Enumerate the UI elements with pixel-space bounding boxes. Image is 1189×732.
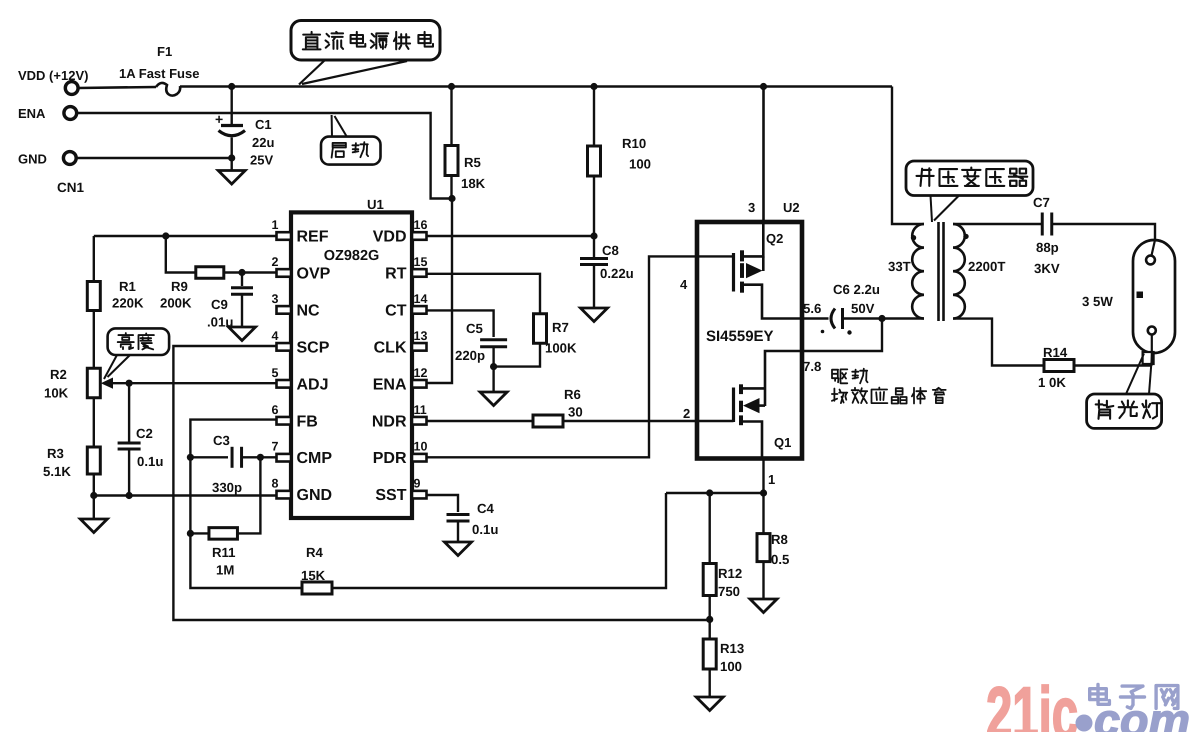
capacitor C6 — [831, 308, 843, 329]
transistor Q1 arrow — [743, 398, 765, 413]
IC U1 part number OZ982G — [324, 248, 380, 264]
resistor R11 — [209, 528, 238, 540]
svg-text:C2: C2 — [136, 426, 153, 441]
svg-text:C3: C3 — [213, 433, 230, 448]
node VDD rail at U2 pin3 — [760, 83, 767, 90]
U1 pin 10 stub (PDR) — [412, 454, 427, 462]
resistor R3 labels — [43, 446, 71, 479]
wire NDR pin11 to R6 — [427, 420, 533, 422]
node VDD rail at R5 — [448, 83, 455, 90]
svg-text:R8: R8 — [771, 532, 788, 547]
svg-text:100: 100 — [720, 659, 742, 674]
U1 pin 13 stub (CLK) — [412, 343, 427, 351]
node U2 pin1 junction — [760, 489, 767, 496]
transistor Q1 gate bar — [732, 388, 735, 423]
ground below C4 — [445, 542, 472, 556]
transistor Q1 label — [774, 435, 791, 450]
wire VDD terminal to fuse — [78, 87, 156, 88]
U2 pin 1 wire — [762, 459, 764, 494]
U1 pin 1 stub (REF) — [277, 232, 292, 240]
wire SST pin9 to C4 — [427, 495, 458, 512]
U1 pin name ENA — [373, 376, 407, 393]
node R12-R13 junction — [706, 616, 713, 623]
watermark .com — [1076, 694, 1189, 732]
svg-text:750: 750 — [718, 584, 740, 599]
svg-text:12: 12 — [414, 366, 428, 380]
svg-text:100K: 100K — [545, 341, 577, 356]
resistor R5 — [445, 87, 458, 199]
transistor Q2 drain lead — [744, 222, 763, 256]
U2 pin 4 number — [680, 277, 688, 292]
svg-text:R11: R11 — [212, 545, 235, 560]
svg-text:U1: U1 — [367, 197, 384, 212]
resistor R6 — [533, 415, 563, 427]
svg-text:0.5: 0.5 — [771, 552, 789, 567]
U1 pin name VDD — [373, 229, 407, 246]
U1 pin 6 stub (FB) — [277, 417, 292, 425]
svg-text:ENA: ENA — [373, 376, 407, 393]
svg-text:15: 15 — [414, 255, 428, 269]
fuse F1 — [156, 83, 180, 96]
node switching node after C6 — [878, 315, 885, 322]
capacitor C2 — [118, 383, 141, 495]
svg-text:13: 13 — [414, 329, 428, 343]
wire VDD pin16 line — [427, 235, 594, 237]
transformer T1 secondary phase dot — [963, 234, 968, 239]
svg-text:VDD (+12V): VDD (+12V) — [18, 68, 88, 83]
svg-text:18K: 18K — [461, 176, 486, 191]
U1 pin name CT — [385, 302, 407, 319]
svg-text:16: 16 — [414, 218, 428, 232]
svg-text:+: + — [215, 111, 223, 127]
wire R9 to OVP pin2 — [224, 271, 276, 273]
U1 pin 11 number — [414, 403, 427, 417]
capacitor C1 — [215, 87, 245, 159]
wire R11 to FB node — [190, 532, 209, 534]
svg-text:OVP: OVP — [297, 265, 331, 282]
wire GND line pin8 — [94, 494, 276, 496]
svg-text:3KV: 3KV — [1034, 261, 1060, 276]
U1 pin name OVP — [297, 265, 331, 282]
U1 pin name PDR — [373, 450, 407, 467]
capacitor C6 labels — [833, 282, 880, 316]
ground left rail — [80, 496, 107, 533]
U1 pin name SST — [375, 487, 406, 504]
U1 pin 7 number — [272, 440, 279, 454]
svg-text:14: 14 — [414, 292, 428, 306]
transistor Q2 channel segments — [740, 250, 744, 292]
wire secondary bottom lead — [953, 319, 1044, 366]
U1 pin 7 stub (CMP) — [277, 454, 292, 462]
svg-text:SST: SST — [375, 487, 406, 504]
svg-text:C5: C5 — [466, 321, 483, 336]
wire R4 line right — [332, 493, 666, 588]
callout box boost transformer (shengya bianyaqi) — [906, 161, 1033, 196]
wire PDR pin10 to U2 pin4 — [427, 256, 697, 457]
node ground line left — [90, 492, 97, 499]
resistor R2 labels — [44, 367, 69, 401]
wire RT pin15 line — [427, 274, 540, 314]
U1 pin 12 number — [414, 366, 428, 380]
potentiometer R2 wiper arrow — [101, 378, 113, 389]
svg-text:U2: U2 — [783, 200, 800, 215]
node OVP at C9 — [238, 269, 245, 276]
wire GND run — [76, 157, 232, 159]
svg-text:NDR: NDR — [372, 413, 407, 430]
svg-text:2: 2 — [683, 406, 690, 421]
svg-text:10K: 10K — [44, 386, 69, 401]
svg-text:1: 1 — [272, 218, 279, 232]
svg-text:Q1: Q1 — [774, 435, 791, 450]
U1 pin name REF — [297, 229, 329, 246]
U1 pin 4 stub (SCP) — [277, 343, 292, 351]
resistor R3 — [87, 447, 100, 474]
transformer T1 secondary turns label 2200T — [968, 259, 1005, 274]
svg-text:7: 7 — [272, 440, 279, 454]
potentiometer R2 — [87, 368, 100, 398]
wire CT pin14 line — [427, 310, 494, 337]
node VDD rail at C1 — [228, 83, 235, 90]
U2 pin 1 number — [768, 472, 775, 487]
svg-text:R10: R10 — [622, 136, 646, 151]
ground below C1 — [218, 158, 245, 184]
U1 pin 16 stub (VDD) — [412, 232, 427, 240]
svg-text:C4: C4 — [477, 501, 495, 516]
svg-text:33T: 33T — [888, 259, 911, 274]
U1 pin 14 number — [414, 292, 428, 306]
node C5-R7 junction — [490, 363, 497, 370]
wire REF line pin1 — [94, 235, 276, 237]
wire FB pin6 — [190, 420, 276, 534]
ground below R8 — [750, 599, 777, 613]
svg-text:C6 2.2u: C6 2.2u — [833, 282, 880, 297]
wire node down to pins7-8 — [802, 319, 882, 352]
svg-text:com: com — [1094, 694, 1189, 732]
wire U2 source to C6 — [802, 317, 829, 319]
U1 pin 15 number — [414, 255, 428, 269]
U1 pin 5 number — [272, 366, 279, 380]
capacitor C5 — [480, 340, 507, 367]
U1 pin 10 number — [414, 440, 428, 454]
resistor R1 — [87, 282, 100, 311]
svg-text:Q2: Q2 — [766, 231, 783, 246]
capacitor C2 labels — [136, 426, 163, 469]
U2 pins 7-8 label — [803, 359, 821, 374]
IC U1 designator — [367, 197, 384, 212]
resistor R8 — [757, 493, 770, 599]
capacitor C7 — [1042, 213, 1052, 236]
svg-text:GND: GND — [18, 152, 47, 167]
capacitor C7 labels — [1033, 195, 1060, 276]
svg-text:OZ982G: OZ982G — [324, 248, 380, 264]
U1 pin 2 number — [272, 255, 279, 269]
capacitor C1 value labels — [250, 117, 274, 168]
svg-text:9: 9 — [414, 477, 421, 491]
wire C6 to node — [843, 317, 883, 319]
U2 part number SI4559EY — [706, 328, 774, 345]
U1 pin 4 number — [272, 329, 279, 343]
node CMP at R11 — [257, 454, 264, 461]
C6 polarity marks — [821, 330, 852, 335]
svg-text:PDR: PDR — [373, 450, 407, 467]
capacitor C4 — [447, 514, 470, 542]
U1 pin 5 stub (ADJ) — [277, 380, 292, 388]
callout box backlight (beiguangdeng) — [1087, 394, 1162, 428]
capacitor C5 labels — [455, 321, 485, 363]
svg-text:1M: 1M — [216, 563, 234, 578]
wire secondary top to C7 — [953, 223, 1042, 225]
U1 pin 16 number — [414, 218, 428, 232]
wire R1 to R2 — [93, 311, 95, 369]
U1 pin 14 stub (CT) — [412, 306, 427, 314]
svg-text:0.1u: 0.1u — [472, 522, 498, 537]
svg-text:R13: R13 — [720, 641, 744, 656]
watermark 21ic — [986, 673, 1078, 732]
wire ENA run — [77, 113, 452, 199]
capacitor C9 — [231, 273, 253, 328]
connector CN1 label — [57, 180, 84, 195]
node ADJ at C2 — [126, 380, 133, 387]
resistor R8 labels — [771, 532, 789, 567]
svg-text:RT: RT — [385, 265, 407, 282]
svg-text:CLK: CLK — [374, 339, 407, 356]
resistor R4 labels — [301, 545, 326, 583]
transformer T1 primary turns label 33T — [888, 259, 911, 274]
svg-text:C8: C8 — [602, 243, 619, 258]
wire VDD rail down to primary top — [892, 87, 924, 225]
U2 designator — [783, 200, 800, 215]
callout brightness pointer — [104, 355, 130, 379]
transistor Q1 gate lead pin2 — [697, 420, 734, 422]
svg-text:FB: FB — [297, 413, 318, 430]
wire node to transformer primary bottom — [882, 317, 924, 319]
lamp bottom electrode — [1148, 327, 1156, 335]
node C2 at ground line — [126, 492, 133, 499]
U1 pin name FB — [297, 413, 318, 430]
svg-text:SI4559EY: SI4559EY — [706, 328, 774, 345]
svg-text:GND: GND — [297, 487, 333, 504]
wire ADJ pin5 from wiper — [105, 382, 276, 384]
wire R4 line left — [190, 533, 302, 588]
svg-text:ENA: ENA — [18, 106, 46, 121]
svg-text:25V: 25V — [250, 153, 273, 168]
svg-text:REF: REF — [297, 229, 329, 246]
lamp CCFL tube outline — [1133, 240, 1175, 353]
connector CN1 terminal GND — [18, 152, 76, 167]
svg-text:0.1u: 0.1u — [137, 454, 163, 469]
resistor R13 — [703, 619, 716, 697]
callout DC power supply pointer — [299, 60, 407, 85]
resistor R11 labels — [212, 545, 235, 578]
svg-text:3: 3 — [272, 292, 279, 306]
callout boost transformer pointer — [931, 196, 960, 223]
wire VDD rail — [180, 85, 892, 88]
svg-text:4: 4 — [680, 277, 688, 292]
wire R3 to ground line — [93, 474, 95, 496]
transistor Q2 label — [766, 231, 783, 246]
connector CN1 terminal ENA — [18, 106, 77, 121]
transistor Q1 source lead — [743, 422, 762, 459]
callout box brightness (liangdu) — [108, 328, 170, 355]
U1 pin 8 stub (GND) — [277, 491, 292, 499]
svg-text:1A Fast Fuse: 1A Fast Fuse — [119, 66, 199, 81]
connector CN1 terminal VDD — [18, 68, 88, 94]
svg-text:21ic: 21ic — [986, 673, 1078, 732]
svg-text:22u: 22u — [252, 135, 274, 150]
svg-text:4: 4 — [272, 329, 279, 343]
resistor R12 labels — [718, 566, 742, 599]
transistor Q2 gate lead pin4 — [697, 255, 734, 257]
svg-text:10: 10 — [414, 440, 428, 454]
svg-text:5: 5 — [272, 366, 279, 380]
wire C7 to lamp top — [1052, 224, 1155, 242]
svg-text:NC: NC — [297, 302, 321, 319]
resistor R9 — [196, 267, 224, 279]
U1 pin name ADJ — [297, 376, 329, 393]
label FET text (changxiaoying jingtiguan) — [832, 388, 946, 404]
capacitor C3 — [232, 447, 242, 468]
resistor R1 labels — [112, 279, 144, 311]
resistor R4 — [302, 582, 332, 594]
wire R14 to lamp — [1074, 364, 1152, 366]
capacitor C9 labels — [207, 297, 233, 330]
svg-text:1: 1 — [768, 472, 775, 487]
U2 pin 3 wire to VDD rail — [762, 87, 765, 223]
svg-text:50V: 50V — [851, 301, 875, 316]
node FB-R11 junction — [187, 530, 194, 537]
svg-text:0.22u: 0.22u — [600, 266, 634, 281]
U1 pin 12 stub (ENA) — [412, 380, 427, 388]
resistor R6 labels — [564, 387, 583, 420]
U2 pins 5-6 label — [803, 301, 821, 316]
capacitor C8 — [580, 236, 608, 308]
resistor R14 labels — [1038, 345, 1068, 390]
node FB-CMP junction — [187, 454, 194, 461]
callout startup pointer — [332, 115, 347, 137]
svg-text:5.1K: 5.1K — [43, 464, 71, 479]
svg-text:CT: CT — [385, 302, 407, 319]
svg-text:220K: 220K — [112, 296, 144, 311]
node GND at C1 — [228, 154, 235, 161]
svg-text:ADJ: ADJ — [297, 376, 329, 393]
svg-text:200K: 200K — [160, 296, 192, 311]
ground below C5 — [480, 367, 507, 406]
node R12 top junction — [706, 489, 713, 496]
callout backlight pointer — [1126, 354, 1152, 395]
U1 pin 15 stub (RT) — [412, 269, 427, 277]
transformer T1 secondary winding — [953, 224, 965, 319]
wire REF to R9 — [166, 236, 196, 273]
wire R7 bottom — [494, 343, 540, 366]
svg-text:8: 8 — [272, 477, 279, 491]
wire CMP pin7 left — [190, 456, 228, 458]
node ENA junction at R5 bottom — [448, 195, 455, 202]
U1 pin 8 number — [272, 477, 279, 491]
transistor Q2 source lead — [744, 285, 802, 319]
svg-text:CMP: CMP — [297, 450, 333, 467]
fuse F1 label — [119, 44, 199, 81]
transformer T1 core — [939, 222, 944, 321]
transformer T1 primary winding — [912, 224, 924, 319]
resistor R9 labels — [160, 279, 192, 311]
U1 pin 2 stub (OVP) — [277, 269, 292, 277]
label driver MOSFET text (qudong) — [832, 369, 868, 384]
U2 pin 2 number — [683, 406, 690, 421]
svg-text:7.8: 7.8 — [803, 359, 821, 374]
node REF at R9 — [162, 232, 169, 239]
callout box startup (qidong) — [321, 137, 381, 165]
svg-text:100: 100 — [629, 157, 651, 172]
U1 pin name CMP — [297, 450, 333, 467]
ground below C9 — [229, 327, 256, 341]
svg-text:R9: R9 — [171, 279, 188, 294]
resistor R14 — [1044, 360, 1074, 372]
transformer T1 primary phase dot — [911, 235, 916, 240]
svg-text:3 5W: 3 5W — [1082, 294, 1113, 309]
wire C3 to CMP pin — [242, 456, 277, 458]
svg-text:SCP: SCP — [297, 339, 330, 356]
resistor R12 — [703, 493, 716, 619]
transistor Q2 arrow — [746, 256, 763, 278]
capacitor C4 labels — [472, 501, 498, 537]
callout box DC power supply (zhiliu dianyuan gongdian) — [291, 21, 440, 61]
svg-text:88p: 88p — [1036, 240, 1059, 255]
lamp getter blob — [1137, 292, 1144, 299]
U1 pin 6 number — [272, 403, 279, 417]
svg-text:R14: R14 — [1043, 345, 1068, 360]
svg-text:5.6: 5.6 — [803, 301, 821, 316]
svg-text:6: 6 — [272, 403, 279, 417]
U1 pin 9 stub (SST) — [412, 491, 427, 499]
wire R6 to U2 pin2 — [563, 420, 697, 422]
U1 pin name CLK — [374, 339, 407, 356]
IC U1 OZ982G body — [291, 212, 412, 518]
svg-text:1 0K: 1 0K — [1038, 375, 1066, 390]
U1 pin name RT — [385, 265, 407, 282]
ground below C8 — [581, 308, 608, 322]
lamp power label 3.5W — [1082, 294, 1113, 309]
svg-text:F1: F1 — [157, 44, 172, 59]
svg-text:R12: R12 — [718, 566, 742, 581]
IC U2 SI4559EY body — [697, 222, 802, 459]
svg-text:330p: 330p — [212, 480, 242, 495]
svg-text:2200T: 2200T — [968, 259, 1005, 274]
svg-text:R4: R4 — [306, 545, 324, 560]
U1 pin 1 number — [272, 218, 279, 232]
resistor R13 labels — [720, 641, 744, 674]
node VDD rail at R10 — [590, 83, 597, 90]
resistor R10 — [588, 87, 601, 237]
wire SCP pin4 sense line — [173, 346, 709, 620]
wire R2 to R3 — [93, 398, 95, 447]
svg-text:11: 11 — [414, 403, 427, 417]
svg-text:C1: C1 — [255, 117, 272, 132]
transistor Q1 drain lead pins7-8 — [765, 351, 802, 406]
svg-text:R5: R5 — [464, 155, 481, 170]
transistor Q1 drain bar lead — [742, 387, 765, 390]
lamp top electrode — [1146, 256, 1155, 265]
svg-text:15K: 15K — [301, 568, 326, 583]
lamp bottom electrode housing — [1143, 352, 1154, 364]
svg-text:220p: 220p — [455, 348, 485, 363]
svg-text:R1: R1 — [119, 279, 136, 294]
svg-text:R7: R7 — [552, 320, 569, 335]
svg-text:30: 30 — [568, 405, 583, 420]
U1 pin 11 stub (NDR) — [412, 417, 427, 425]
svg-text:3: 3 — [748, 200, 755, 215]
svg-text:VDD: VDD — [373, 229, 407, 246]
U1 pin 13 number — [414, 329, 428, 343]
